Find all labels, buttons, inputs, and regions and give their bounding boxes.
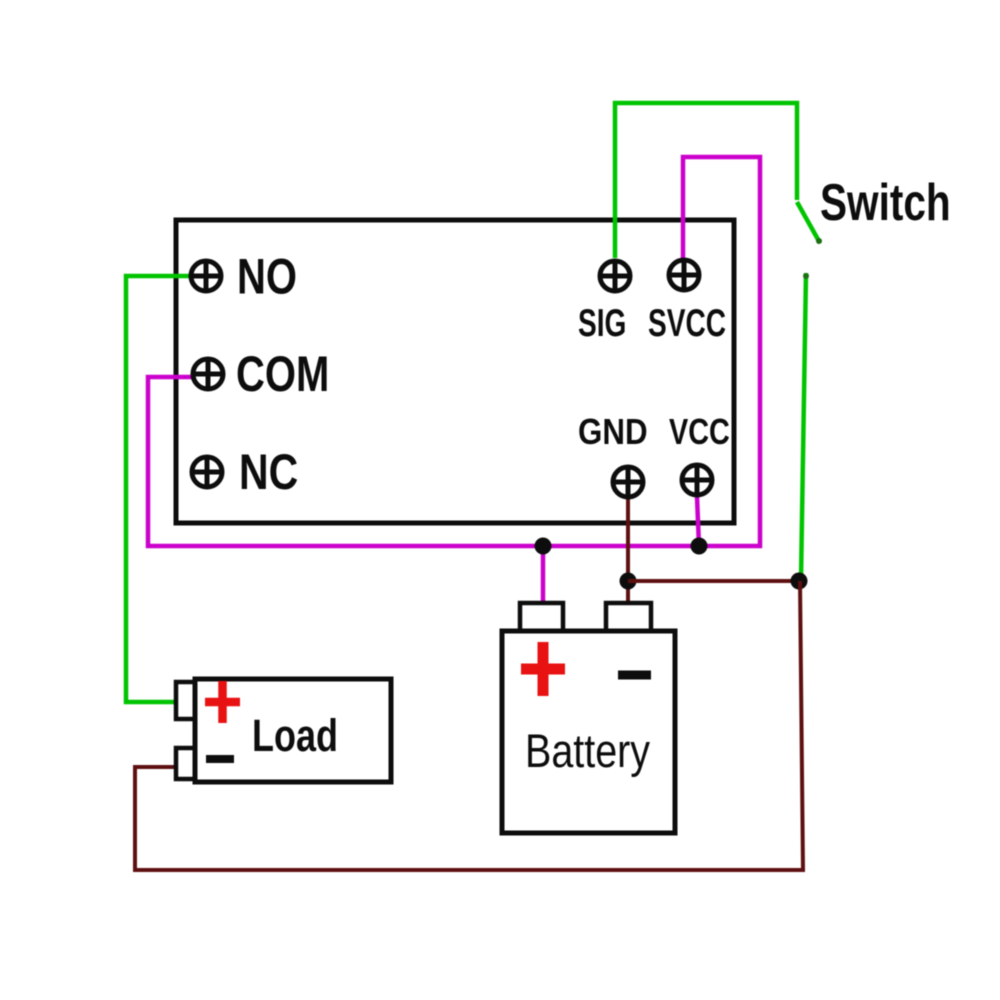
wire: dark red horizontal junction to right [628, 579, 800, 583]
svg-text:Load: Load [252, 710, 338, 761]
battery plus symbol [521, 642, 565, 696]
junction dot battery plus/magenta [535, 538, 552, 555]
terminal GND [611, 465, 645, 499]
battery plus tab [520, 603, 563, 633]
junction dot right [791, 573, 808, 590]
svg-text:Switch: Switch [820, 173, 951, 231]
svg-text:COM: COM [236, 346, 329, 402]
terminal SVCC [667, 258, 701, 292]
wire: green NO to Load + [126, 276, 191, 702]
terminal SIG [598, 259, 632, 293]
wire: dark red right side down, bottom, left side up to Load minus [135, 581, 803, 870]
load box [195, 679, 391, 782]
junction dot GND wire [620, 573, 637, 590]
svg-text:VCC: VCC [669, 411, 730, 452]
battery minus symbol [618, 671, 651, 680]
svg-text:NC: NC [239, 444, 298, 500]
terminal VCC [680, 463, 714, 497]
svg-text:NO: NO [237, 248, 297, 304]
load minus symbol [206, 755, 234, 763]
terminal NO [189, 259, 223, 293]
junction dot VCC/magenta [691, 538, 708, 555]
wire: green SIG up over to switch top [615, 103, 797, 258]
load minus tab [176, 748, 195, 779]
battery minus tab [606, 603, 651, 633]
wire: magenta VCC stub [697, 497, 699, 546]
svg-text:SIG: SIG [578, 302, 626, 346]
battery box [502, 631, 675, 833]
wire: green switch lower contact down to junction [801, 273, 806, 579]
relay module box [176, 220, 734, 523]
switch blade (green diagonal) [797, 202, 820, 243]
terminal NC [190, 455, 224, 489]
terminal COM [191, 357, 225, 391]
wire: magenta COM to SVCC [148, 157, 760, 546]
svg-text:GND: GND [578, 412, 648, 453]
svg-text:Battery: Battery [525, 726, 650, 778]
svg-text:SVCC: SVCC [648, 302, 726, 346]
wire: dark red GND down to battery minus [626, 498, 630, 604]
load plus symbol [205, 681, 240, 723]
load plus tab [176, 682, 195, 719]
wire: magenta battery plus stub [541, 546, 546, 604]
